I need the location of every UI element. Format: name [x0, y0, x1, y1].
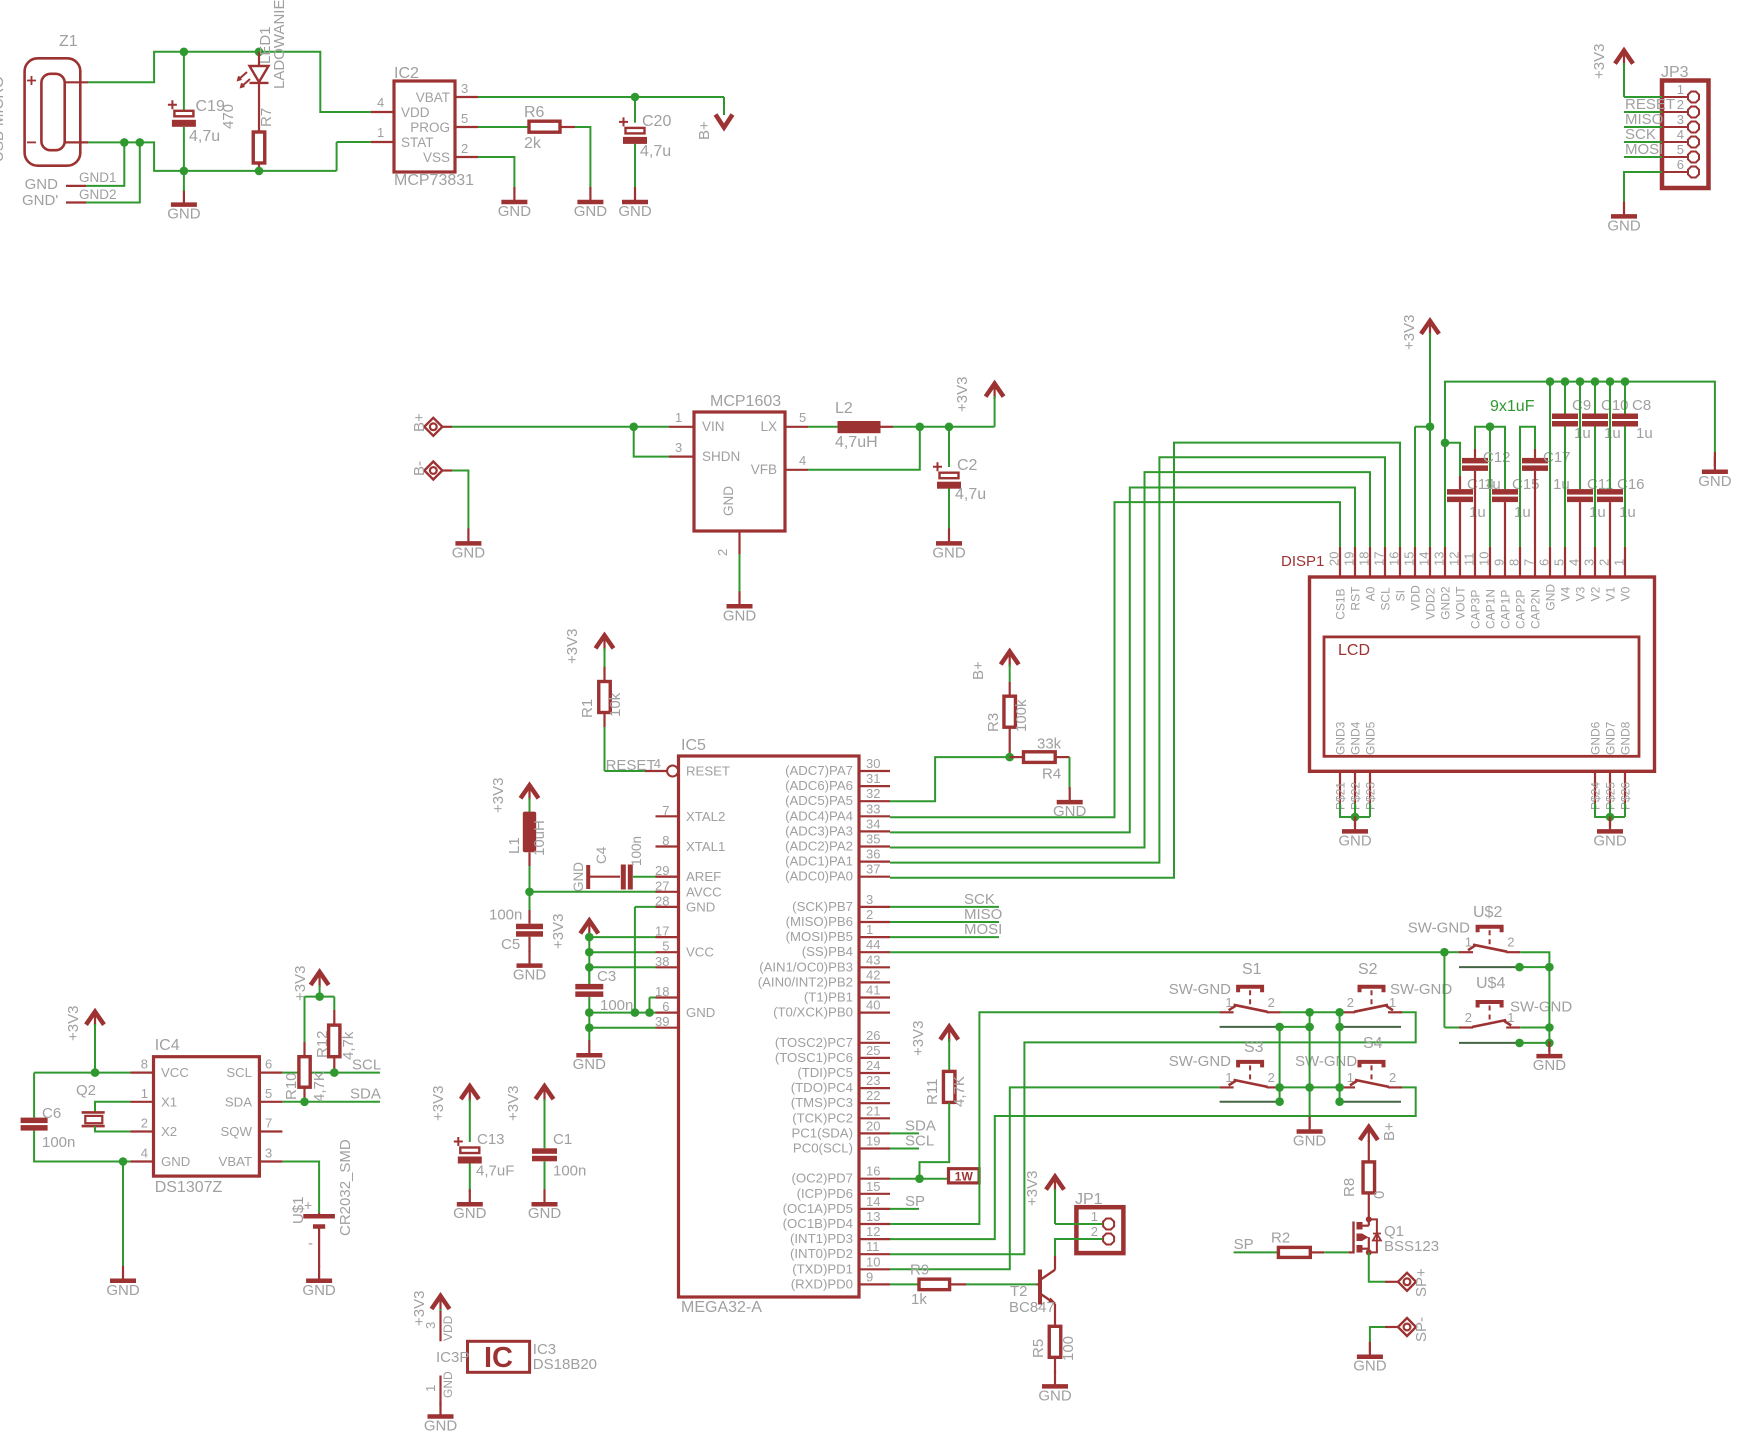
node S3 lower left — [1275, 1097, 1284, 1106]
wire PA2 to A0 — [890, 472, 1370, 847]
svg-text:3: 3 — [675, 440, 682, 455]
svg-text:+3V3: +3V3 — [65, 1006, 82, 1041]
svg-text:4,7uH: 4,7uH — [835, 434, 878, 451]
svg-text:-: - — [308, 1235, 313, 1252]
svg-text:V0: V0 — [1619, 586, 1633, 601]
ground under C5 — [513, 951, 547, 984]
net RESET at IC5 — [605, 757, 656, 774]
ground sideways at C4 — [571, 862, 620, 892]
U$2 lower contact — [1459, 966, 1549, 968]
svg-text:C4: C4 — [594, 846, 609, 864]
node S4 row xB — [1335, 1083, 1344, 1092]
supply +3V3 at C1 — [505, 1086, 554, 1149]
svg-text:B+: B+ — [1381, 1122, 1398, 1141]
switch S1 — [1220, 961, 1281, 1012]
svg-text:+3V3: +3V3 — [430, 1086, 447, 1121]
svg-text:GND: GND — [1053, 803, 1087, 820]
svg-text:GND: GND — [453, 1205, 487, 1222]
svg-text:1: 1 — [675, 410, 682, 425]
svg-text:10uH: 10uH — [531, 820, 548, 856]
svg-text:36: 36 — [866, 847, 880, 862]
wire Z1 - net — [65, 142, 337, 171]
svg-text:X1: X1 — [161, 1094, 177, 1109]
wire PA4 to CS1B — [890, 502, 1340, 817]
wire GND6-8 join — [1595, 803, 1625, 817]
ground under IC4 — [106, 1266, 140, 1299]
JP3 pin 2 — [1662, 97, 1699, 118]
vertical xB — [1339, 1012, 1341, 1101]
wire PD3 to S4 — [890, 1087, 1416, 1239]
svg-text:3: 3 — [1677, 112, 1684, 127]
svg-text:2: 2 — [715, 549, 730, 556]
svg-text:6: 6 — [1677, 157, 1684, 172]
capacitor C12 — [1462, 449, 1511, 547]
svg-text:(ADC7)PA7: (ADC7)PA7 — [785, 763, 853, 778]
net SDA at IC5 — [890, 1117, 936, 1134]
node GND18 join — [645, 1008, 654, 1017]
svg-text:12: 12 — [866, 1224, 880, 1239]
svg-text:R8: R8 — [1341, 1178, 1358, 1197]
svg-text:2: 2 — [1091, 1224, 1098, 1239]
wire GND cluster — [589, 907, 655, 1041]
svg-text:(TXD)PD1: (TXD)PD1 — [792, 1261, 853, 1276]
ground under C2 — [932, 528, 966, 561]
svg-text:DS1307Z: DS1307Z — [155, 1179, 223, 1196]
net SP at IC5 — [890, 1193, 925, 1210]
svg-text:PC0(SCL): PC0(SCL) — [793, 1141, 853, 1156]
switch S4 — [1341, 1035, 1402, 1087]
svg-text:XTAL1: XTAL1 — [686, 839, 725, 854]
svg-text:GND: GND — [1607, 217, 1641, 234]
svg-text:VFB: VFB — [751, 462, 777, 477]
svg-text:+3V3: +3V3 — [910, 1021, 927, 1056]
svg-text:(AIN0/INT2)PB2: (AIN0/INT2)PB2 — [758, 974, 853, 989]
svg-text:(ADC1)PA1: (ADC1)PA1 — [785, 854, 853, 869]
svg-text:100n: 100n — [600, 997, 633, 1014]
svg-text:8: 8 — [662, 833, 669, 848]
svg-text:1u: 1u — [1636, 425, 1653, 442]
svg-text:S1: S1 — [1242, 961, 1262, 978]
capacitor C1 — [532, 1131, 586, 1192]
svg-text:GND: GND — [1544, 584, 1558, 611]
ground under C19 — [167, 171, 201, 223]
net MOSI at JP3 — [1624, 141, 1663, 158]
svg-text:L2: L2 — [835, 400, 853, 417]
svg-text:R6: R6 — [524, 104, 545, 121]
svg-text:4: 4 — [1567, 559, 1582, 566]
svg-text:100n: 100n — [489, 907, 522, 924]
label SW-GND U$2 — [1408, 920, 1470, 937]
svg-text:SHDN: SHDN — [702, 449, 740, 464]
svg-text:(TOSC1)PC6: (TOSC1)PC6 — [775, 1050, 853, 1065]
svg-text:+3V3: +3V3 — [954, 377, 971, 412]
svg-text:AVCC: AVCC — [686, 884, 722, 899]
svg-text:2: 2 — [141, 1116, 148, 1131]
capacitor C8 — [1612, 377, 1653, 547]
svg-text:(T1)PB1: (T1)PB1 — [804, 990, 853, 1005]
svg-text:(T0/XCK)PB0: (T0/XCK)PB0 — [773, 1005, 853, 1020]
svg-text:7: 7 — [662, 803, 669, 818]
svg-text:VIN: VIN — [702, 419, 725, 434]
node U$4 lower right — [1545, 1039, 1554, 1048]
svg-text:(INT0)PD2: (INT0)PD2 — [790, 1246, 853, 1261]
label SW-GND U$4 — [1510, 998, 1572, 1015]
svg-text:1: 1 — [423, 1385, 438, 1392]
svg-text:17: 17 — [1372, 552, 1387, 566]
supply B+ at R8 — [1360, 1122, 1398, 1162]
svg-text:SW-GND: SW-GND — [1408, 920, 1470, 937]
ground under C13 — [453, 1189, 487, 1222]
svg-text:VDD: VDD — [401, 105, 430, 120]
svg-text:20: 20 — [1327, 552, 1342, 566]
net SDA at IC4 — [282, 1086, 380, 1103]
svg-text:V4: V4 — [1559, 586, 1573, 601]
ground under switches — [1293, 1117, 1327, 1150]
switch S2 — [1341, 961, 1402, 1012]
ground under C3 — [573, 1040, 607, 1073]
svg-text:8: 8 — [1507, 559, 1522, 566]
node S2 row xB — [1335, 1008, 1344, 1017]
DISP1 top pins 1-20 — [1327, 547, 1633, 629]
svg-text:2: 2 — [1465, 1010, 1472, 1025]
svg-text:(MOSI)PB5: (MOSI)PB5 — [786, 929, 853, 944]
svg-text:SCL: SCL — [1379, 587, 1393, 611]
svg-text:VDD: VDD — [441, 1315, 455, 1341]
svg-text:GND6: GND6 — [1589, 721, 1603, 755]
svg-text:GND: GND — [498, 203, 532, 220]
svg-text:LCD: LCD — [1338, 642, 1370, 659]
svg-text:100n: 100n — [553, 1163, 586, 1180]
wire PD4 to S1 — [890, 1012, 1220, 1224]
wire VFB feedback — [808, 427, 920, 470]
supply +3V3 at R11 — [910, 1021, 958, 1072]
svg-text:IC3P: IC3P — [436, 1349, 469, 1366]
svg-text:11: 11 — [866, 1239, 880, 1254]
wire U$2.2 down — [1520, 952, 1549, 1049]
svg-text:11: 11 — [1462, 553, 1477, 567]
svg-text:GND4: GND4 — [1349, 721, 1363, 755]
svg-text:+3V3: +3V3 — [564, 629, 581, 664]
wire PA3 to RST — [890, 488, 1355, 833]
node VCC38 — [585, 963, 594, 972]
svg-text:(TMS)PC3: (TMS)PC3 — [791, 1095, 853, 1110]
svg-text:IC2: IC2 — [394, 65, 419, 82]
svg-text:4,7K: 4,7K — [951, 1076, 968, 1107]
svg-text:VSS: VSS — [423, 150, 450, 165]
svg-text:SP-: SP- — [1413, 1317, 1430, 1342]
capacitor C9 — [1552, 377, 1591, 547]
wire PD2 to S2 — [890, 1012, 1416, 1254]
resistor 1W — [949, 1169, 980, 1184]
wire U$4.1 — [1520, 1027, 1549, 1029]
wire R11 to PD7 — [920, 1103, 950, 1179]
svg-text:2k: 2k — [524, 135, 542, 152]
svg-text:(ADC4)PA4: (ADC4)PA4 — [785, 808, 853, 823]
svg-text:10k: 10k — [607, 692, 624, 717]
resistor R9 — [890, 1262, 1037, 1309]
svg-text:VDD2: VDD2 — [1424, 587, 1438, 619]
svg-text:100n: 100n — [42, 1134, 75, 1151]
ground under IC3 — [424, 1402, 458, 1435]
svg-text:VCC: VCC — [686, 945, 714, 960]
supply B+ at R3 — [970, 652, 1019, 681]
svg-text:+3V3: +3V3 — [550, 914, 567, 949]
svg-text:R3: R3 — [985, 713, 1002, 732]
wire LX to L2 — [808, 426, 838, 428]
supply +3V3 at JP3 — [1591, 44, 1633, 97]
svg-text:18: 18 — [655, 984, 669, 999]
svg-text:GND: GND — [167, 206, 201, 223]
node GND28 join — [631, 1008, 640, 1017]
crystal Q2 — [76, 1082, 131, 1132]
svg-text:GND: GND — [528, 1205, 562, 1222]
transistor T2 BC847 — [1009, 1256, 1056, 1326]
resistor R8 — [1341, 1162, 1388, 1220]
svg-text:GND7: GND7 — [1604, 721, 1618, 755]
svg-text:1u: 1u — [1604, 425, 1621, 442]
svg-text:41: 41 — [866, 983, 880, 998]
supply +3V3 at IC4 — [65, 1006, 104, 1073]
svg-text:SI: SI — [1394, 590, 1408, 601]
net MISO — [890, 906, 1002, 923]
ground under R6 — [574, 187, 608, 220]
wire SS to U$2 — [890, 951, 1444, 953]
svg-text:SP: SP — [905, 1193, 925, 1210]
svg-text:19: 19 — [1342, 552, 1357, 566]
svg-text:GND: GND — [1338, 832, 1372, 849]
node C3 bottom — [585, 1008, 594, 1017]
label 9x1uF — [1490, 398, 1535, 415]
svg-text:SW-GND: SW-GND — [1390, 981, 1452, 998]
resistor R2 — [1271, 1230, 1354, 1258]
svg-text:100n: 100n — [629, 836, 644, 866]
svg-text:LADOWANIE: LADOWANIE — [271, 0, 288, 89]
node PD7 junction — [915, 1174, 924, 1183]
svg-text:4,7k: 4,7k — [340, 1031, 357, 1060]
svg-text:CR2032_SMD: CR2032_SMD — [337, 1139, 354, 1236]
svg-text:V2: V2 — [1589, 586, 1603, 601]
svg-text:40: 40 — [866, 998, 880, 1013]
svg-text:XTAL2: XTAL2 — [686, 809, 725, 824]
svg-text:Z1: Z1 — [59, 33, 78, 50]
resistor R3 — [985, 664, 1030, 757]
node U$2 lower right — [1545, 963, 1554, 972]
svg-text:3: 3 — [423, 1322, 438, 1329]
JP3 pin 5 — [1662, 142, 1699, 163]
svg-text:1: 1 — [1677, 82, 1684, 97]
svg-text:2: 2 — [1677, 97, 1684, 112]
svg-text:(SS)PB4: (SS)PB4 — [802, 944, 853, 959]
svg-text:C3: C3 — [597, 968, 616, 985]
svg-text:1u: 1u — [1514, 504, 1531, 521]
svg-text:U$1: U$1 — [290, 1196, 307, 1224]
node C19 bottom — [180, 167, 189, 176]
svg-text:VBAT: VBAT — [416, 90, 450, 105]
IC IC4 DS1307Z — [131, 1037, 283, 1196]
svg-text:33: 33 — [866, 801, 880, 816]
switch U$2 — [1459, 904, 1520, 952]
svg-text:32: 32 — [866, 786, 880, 801]
LED LED1 — [238, 0, 288, 132]
S4 lower contact — [1340, 1101, 1401, 1103]
node U$2 lower mid — [1515, 963, 1524, 972]
svg-text:2: 2 — [866, 907, 873, 922]
node VCC junction — [91, 1068, 100, 1077]
svg-text:MOSI: MOSI — [964, 921, 1002, 938]
switch U$4 — [1459, 975, 1520, 1028]
node VDD2 junction — [1426, 422, 1435, 431]
ground under SP- — [1353, 1342, 1387, 1375]
svg-text:SCL: SCL — [226, 1065, 252, 1080]
svg-text:X2: X2 — [161, 1124, 177, 1139]
svg-text:R5: R5 — [1030, 1339, 1047, 1358]
wire SS stub — [1444, 951, 1459, 953]
inductor L2 — [835, 400, 881, 451]
svg-text:SW-GND: SW-GND — [1510, 998, 1572, 1015]
svg-text:GND: GND — [618, 203, 652, 220]
svg-text:CS1B: CS1B — [1334, 588, 1348, 619]
ground under U$1 — [302, 1266, 336, 1299]
svg-text:GND: GND — [441, 1371, 455, 1398]
svg-text:4: 4 — [377, 95, 384, 110]
svg-text:(ADC5)PA5: (ADC5)PA5 — [785, 793, 853, 808]
svg-text:USB-MICRO: USB-MICRO — [0, 76, 7, 162]
svg-text:SW-GND: SW-GND — [1169, 981, 1231, 998]
node minus-GND2 — [136, 138, 145, 147]
terminal SP- — [1385, 1317, 1430, 1342]
svg-text:(TDO)PC4: (TDO)PC4 — [791, 1080, 853, 1095]
JP3 pin 1 — [1662, 82, 1699, 103]
terminal B+ input — [411, 413, 452, 436]
svg-text:3: 3 — [265, 1146, 272, 1161]
svg-text:GND2: GND2 — [1439, 586, 1453, 620]
node VCC5 — [585, 948, 594, 957]
svg-text:V3: V3 — [1574, 586, 1588, 601]
supply +3V3 at IC3 — [411, 1291, 450, 1326]
GND rail top — [1445, 382, 1715, 547]
svg-text:SP: SP — [1234, 1236, 1254, 1253]
capacitor C13 — [454, 1131, 515, 1192]
svg-text:C12: C12 — [1483, 449, 1511, 466]
node GND7 junction — [1606, 813, 1615, 822]
svg-text:(OC1B)PD4: (OC1B)PD4 — [783, 1216, 853, 1231]
svg-text:(ADC2)PA2: (ADC2)PA2 — [785, 839, 853, 854]
svg-text:100: 100 — [1060, 1336, 1077, 1361]
node pullup rail — [315, 992, 324, 1001]
node U$4 row right — [1545, 1023, 1554, 1032]
capacitor C5 — [489, 892, 543, 953]
wire pullup rail — [305, 996, 335, 998]
svg-text:25: 25 — [866, 1043, 880, 1058]
svg-text:C9: C9 — [1572, 397, 1591, 414]
svg-text:(TCK)PC2: (TCK)PC2 — [792, 1110, 853, 1125]
node S1 lower right — [1305, 1023, 1314, 1032]
svg-text:GND: GND — [723, 607, 757, 624]
svg-text:+3V3: +3V3 — [1024, 1171, 1041, 1206]
supply +3V3 at C13 — [430, 1086, 479, 1142]
svg-text:GND: GND — [106, 1282, 140, 1299]
wire L2 to +3V3 — [881, 426, 995, 428]
svg-text:GND: GND — [686, 899, 715, 914]
ground under B- — [452, 528, 486, 561]
wire VCC rail — [589, 937, 655, 984]
svg-text:2: 2 — [1597, 559, 1612, 566]
svg-text:U$2: U$2 — [1473, 904, 1502, 921]
node U$4 lower mid — [1515, 1039, 1524, 1048]
IC IC2 MCP73831 — [371, 65, 478, 189]
resistor R7 — [220, 104, 275, 171]
svg-text:MCP73831: MCP73831 — [394, 172, 474, 189]
wire AVCC — [530, 891, 656, 893]
svg-text:2: 2 — [1268, 1070, 1275, 1085]
svg-text:(ADC3)PA3: (ADC3)PA3 — [785, 823, 853, 838]
DISP1 bottom pins — [1334, 721, 1633, 810]
transistor Q1 BSS123 — [1354, 1216, 1440, 1255]
connector JP1 — [1075, 1191, 1123, 1253]
svg-text:GND: GND — [1698, 473, 1732, 490]
label SW-GND S1 — [1169, 981, 1231, 998]
ground under R4 — [1053, 787, 1087, 820]
svg-text:R11: R11 — [924, 1079, 941, 1105]
S3 lower contact — [1220, 1101, 1280, 1103]
svg-text:(OC1A)PD5: (OC1A)PD5 — [783, 1201, 853, 1216]
wire GND pin6 — [1546, 377, 1555, 547]
svg-text:10: 10 — [866, 1254, 880, 1269]
wire SP- to GND — [1370, 1327, 1385, 1352]
svg-text:B+: B+ — [411, 413, 428, 432]
capacitor C2 — [933, 427, 986, 530]
svg-text:1: 1 — [141, 1086, 148, 1101]
node C2 tap — [945, 423, 954, 432]
svg-text:15: 15 — [866, 1179, 880, 1194]
svg-text:GND: GND — [25, 176, 59, 193]
wire PD7 — [890, 1178, 949, 1180]
svg-text:CAP1P: CAP1P — [1499, 590, 1513, 629]
svg-text:(SCK)PB7: (SCK)PB7 — [792, 899, 853, 914]
svg-text:GND5: GND5 — [1364, 721, 1378, 755]
net SP at R2 — [1234, 1236, 1279, 1253]
svg-text:4: 4 — [1677, 127, 1684, 142]
svg-text:26: 26 — [866, 1028, 880, 1043]
supply +3V3 at VCC — [550, 914, 598, 949]
svg-text:SQW: SQW — [220, 1124, 252, 1139]
IC MCP1603 — [669, 393, 808, 556]
net SCK — [890, 891, 999, 908]
wire VCC row — [34, 1072, 130, 1074]
wire divider to PA5 — [890, 757, 1010, 801]
svg-text:19: 19 — [866, 1134, 880, 1149]
svg-text:27: 27 — [655, 878, 669, 893]
capacitor C10 — [1582, 377, 1629, 547]
svg-text:1u: 1u — [1589, 504, 1606, 521]
U$4 lower contact — [1459, 1042, 1549, 1044]
svg-text:R2: R2 — [1271, 1230, 1290, 1247]
wire JP1 pin2 — [1055, 1239, 1103, 1256]
IC IC3 DS18B20 — [423, 1311, 597, 1405]
svg-text:SDA: SDA — [350, 1086, 381, 1103]
svg-text:13: 13 — [866, 1209, 880, 1224]
svg-text:BC847: BC847 — [1009, 1299, 1055, 1316]
net MOSI — [890, 921, 1002, 938]
svg-text:(ADC0)PA0: (ADC0)PA0 — [785, 869, 853, 884]
node AVCC junction — [525, 888, 534, 897]
node GND4 junction — [119, 1157, 128, 1166]
node S3 row xA — [1305, 1083, 1314, 1092]
svg-text:3: 3 — [461, 81, 468, 96]
svg-text:+3V3: +3V3 — [505, 1086, 522, 1121]
node GND4 junction — [1351, 813, 1360, 822]
wire S1.2-S2.2 row — [1281, 1011, 1344, 1013]
